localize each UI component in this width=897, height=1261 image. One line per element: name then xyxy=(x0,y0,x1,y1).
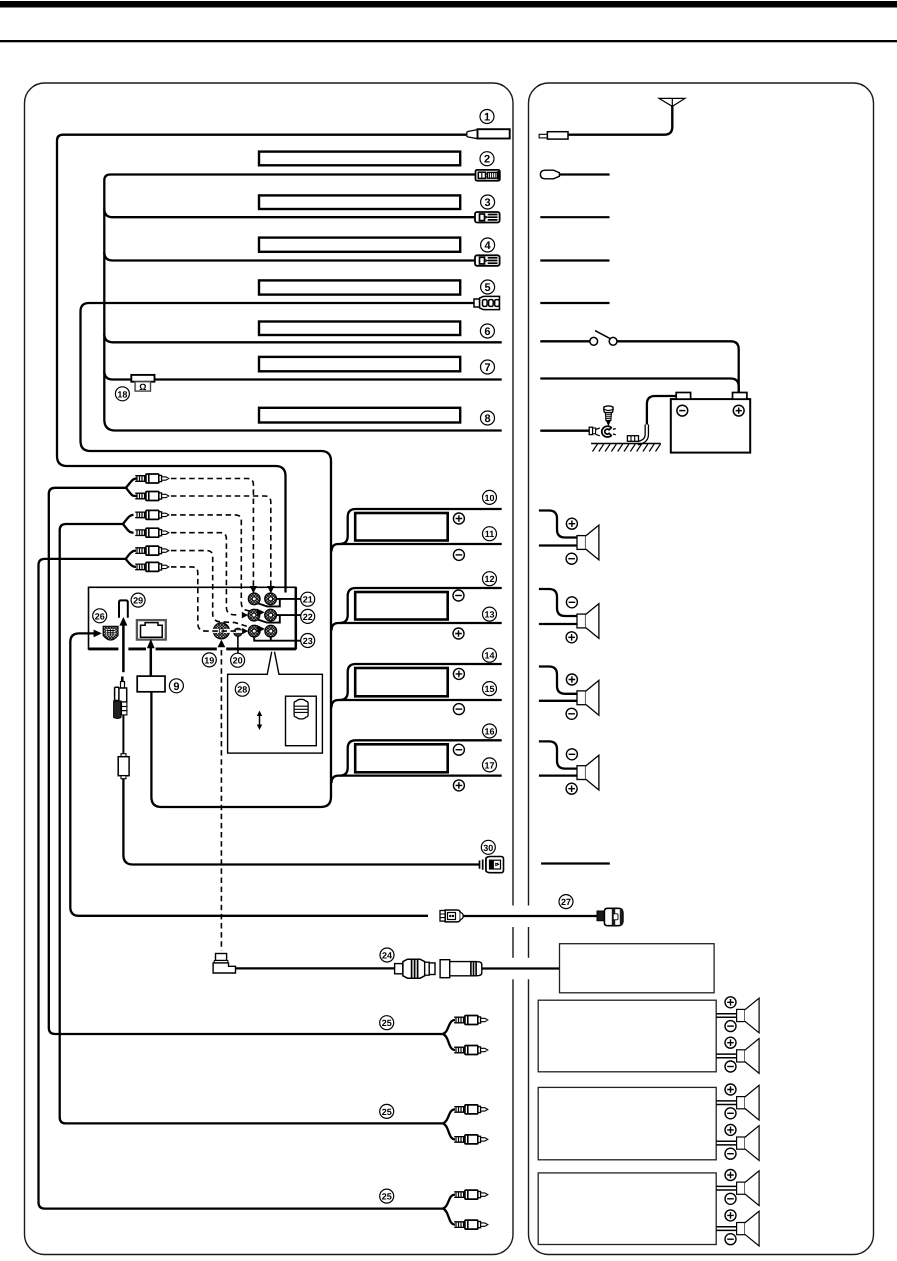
border gaps where leads 27 and 24 pass xyxy=(511,906,516,928)
RCA jack 23L xyxy=(248,625,260,637)
RCA jack 22L xyxy=(248,609,260,621)
connector pair 24 xyxy=(395,959,482,978)
RCA jack 23R xyxy=(265,625,277,637)
wire 15 rear-left - xyxy=(332,700,502,708)
wire 17 rear-right + xyxy=(332,776,502,783)
car antenna symbol xyxy=(659,98,685,106)
ignition switch xyxy=(590,331,617,346)
node label 25a xyxy=(380,1016,394,1030)
node label 17 xyxy=(483,758,497,772)
jack 19 (changer/aux DIN) xyxy=(213,623,230,639)
chassis ground xyxy=(591,444,661,452)
node label 8 xyxy=(481,411,495,425)
RCA jack bracket row 22 xyxy=(257,615,301,623)
svg-text:14: 14 xyxy=(484,651,494,661)
node label 28 xyxy=(235,682,249,696)
node label 11 xyxy=(483,527,497,541)
RCA jack 22R xyxy=(265,609,277,621)
car speaker RR xyxy=(539,741,599,794)
dashed lead from jack 19 down to 24 xyxy=(220,650,222,951)
double arrow 28 xyxy=(257,711,262,731)
amp box C xyxy=(538,1087,716,1159)
RCA plug 1a xyxy=(135,474,169,483)
svg-text:18: 18 xyxy=(117,389,127,399)
node label 21 xyxy=(301,592,315,606)
speaker label box pair 14/15 xyxy=(355,668,448,696)
amp box B xyxy=(538,1000,716,1072)
elbow plug 24 xyxy=(213,954,235,974)
RCA plug 3a xyxy=(135,546,169,555)
big socket (power connector receptacle) xyxy=(137,620,166,640)
battery wire 7 xyxy=(540,379,738,393)
amp D speaker 1 xyxy=(716,1170,759,1206)
ground wire 8 xyxy=(540,430,589,432)
dashed RCA line 1a into jack 21L xyxy=(171,479,257,594)
car speaker RL xyxy=(539,667,599,720)
battery holder inner box 28 xyxy=(286,696,317,746)
wire 10 front-left + xyxy=(340,509,502,544)
battery ground lead xyxy=(647,396,676,425)
node label 16 xyxy=(483,724,497,738)
svg-text:Ω: Ω xyxy=(139,382,146,392)
dashed RCA line 2b into jack 22L xyxy=(171,533,248,619)
svg-text:27: 27 xyxy=(561,897,571,907)
node label 13 xyxy=(483,607,497,621)
wire 16 rear-right - xyxy=(340,740,502,775)
inline connector box on lead 30 xyxy=(118,754,129,779)
lead socket 2 xyxy=(540,170,559,179)
arrow 9 up into socket xyxy=(147,639,155,648)
callout box 28 xyxy=(228,652,323,753)
car lead 5 xyxy=(540,302,609,304)
header bar xyxy=(0,1,897,8)
RCA plug 25b-1 xyxy=(454,1105,488,1114)
node label 5 xyxy=(481,280,495,294)
jack 20 (steering remote) xyxy=(233,628,242,636)
svg-text:5: 5 xyxy=(485,282,491,294)
connector 5 xyxy=(474,296,500,309)
node label 4 xyxy=(481,238,495,252)
wire 6 xyxy=(104,334,501,343)
svg-text:17: 17 xyxy=(484,760,494,770)
fuse 18 on wire 7 xyxy=(131,375,154,392)
RCA pigtail trunk A (to 25a) xyxy=(49,488,443,1034)
svg-text:21: 21 xyxy=(303,595,313,605)
wire 26/27 with arrow into DIN socket xyxy=(70,633,428,915)
wire 24 to amp xyxy=(482,967,560,969)
RCA plug 1b xyxy=(135,492,169,501)
bottom RCA Y-split A xyxy=(443,1020,455,1050)
svg-text:22: 22 xyxy=(303,612,313,622)
node label 22 xyxy=(301,609,315,623)
connector 2 xyxy=(476,170,501,181)
speaker label box pair 12/13 xyxy=(355,592,448,620)
node label 12 xyxy=(483,572,497,586)
battery plus sign xyxy=(733,405,744,416)
svg-text:25: 25 xyxy=(382,1192,392,1202)
svg-text:2: 2 xyxy=(484,154,490,166)
svg-text:23: 23 xyxy=(303,636,313,646)
svg-text:16: 16 xyxy=(484,727,494,737)
svg-text:7: 7 xyxy=(484,362,490,374)
svg-text:25: 25 xyxy=(382,1018,392,1028)
bottom RCA Y-split B xyxy=(443,1109,455,1139)
svg-text:28: 28 xyxy=(237,685,247,695)
wire 3 xyxy=(104,209,474,218)
connector 30 xyxy=(480,857,504,873)
svg-text:1: 1 xyxy=(484,112,490,124)
node label 14 xyxy=(483,648,497,662)
svg-text:24: 24 xyxy=(382,951,392,961)
wire 14 rear-left + xyxy=(340,664,502,700)
battery cell icon xyxy=(294,699,308,719)
rotary commander lead xyxy=(541,862,610,864)
socket 29 slot xyxy=(119,600,128,617)
svg-text:25: 25 xyxy=(382,1107,392,1117)
dashed RCA line 1b into jack 21R xyxy=(171,496,274,594)
svg-text:4: 4 xyxy=(485,240,492,252)
RCA plug 25b-2 xyxy=(454,1135,488,1144)
svg-text:12: 12 xyxy=(484,574,494,584)
wire 24 xyxy=(236,967,395,969)
svg-text:6: 6 xyxy=(484,326,490,338)
arrow into jack 19 xyxy=(218,640,226,648)
label box 7 xyxy=(259,357,460,371)
node label 7 xyxy=(481,360,495,374)
car lead 4 xyxy=(540,259,609,261)
wire 4 xyxy=(104,252,474,261)
node label 3 xyxy=(481,195,495,209)
svg-text:19: 19 xyxy=(204,655,214,665)
amp B speaker 2 xyxy=(716,1037,759,1073)
car speaker FL xyxy=(539,511,599,565)
label box 4 xyxy=(259,238,460,252)
svg-text:15: 15 xyxy=(484,684,494,694)
svg-text:13: 13 xyxy=(484,610,494,620)
RCA jack bracket row 21 xyxy=(257,599,301,607)
plug 27 xyxy=(597,908,623,925)
node label 24 xyxy=(380,948,394,962)
node label 18 xyxy=(115,387,129,401)
svg-text:8: 8 xyxy=(484,413,490,425)
wire 30 xyxy=(123,779,479,865)
svg-text:11: 11 xyxy=(485,529,495,539)
battery xyxy=(671,393,750,453)
bottom RCA Y-split C xyxy=(443,1195,455,1225)
RCA plug 25a-1 xyxy=(454,1016,488,1025)
wire 11 front-left - xyxy=(332,544,502,552)
node label 19 xyxy=(202,653,216,667)
wire 27 inline connector xyxy=(440,910,463,922)
antenna cable xyxy=(568,105,672,135)
node label 27 xyxy=(559,895,573,909)
label box 2 xyxy=(259,152,460,166)
wire 1 antenna lead xyxy=(57,135,467,593)
amp box D xyxy=(538,1173,716,1245)
speaker label box pair 10/11 xyxy=(355,513,448,541)
node label 29 xyxy=(131,593,145,607)
svg-text:20: 20 xyxy=(233,656,243,666)
node label 30 xyxy=(481,840,495,854)
RCA plug 25c-1 xyxy=(454,1190,488,1199)
RCA jack bracket row 23 xyxy=(254,637,301,641)
RCA pigtail trunk C (to 25c) xyxy=(39,559,443,1209)
cable clamp xyxy=(627,436,638,442)
wire 13 front-right + xyxy=(332,623,502,631)
wire 12 front-right - xyxy=(340,588,502,623)
svg-text:30: 30 xyxy=(483,843,493,853)
RCA plug 3b xyxy=(135,562,169,571)
RCA plug 2b xyxy=(135,528,169,537)
RCA plug 25a-2 xyxy=(454,1046,488,1055)
RCA plug pair 2 pigtails xyxy=(123,515,134,524)
amp box for 24 xyxy=(560,944,715,993)
ring terminal xyxy=(589,426,616,437)
ignition switch wire xyxy=(540,340,589,342)
amp C speaker 1 xyxy=(716,1084,759,1120)
speaker label box pair 16/17 xyxy=(355,744,448,772)
remote lead plug chain (29) xyxy=(114,677,127,719)
car lead 2 xyxy=(559,173,609,175)
svg-text:10: 10 xyxy=(484,493,494,503)
polarity signs left panel xyxy=(453,513,464,524)
RCA jack 21R xyxy=(265,593,277,605)
node label 10 xyxy=(483,490,497,504)
antenna plug 1 xyxy=(467,130,478,139)
svg-text:3: 3 xyxy=(485,197,491,209)
label box 5 xyxy=(259,280,460,294)
dashed RCA line 2a into jack 22R xyxy=(171,515,265,616)
car speaker FR xyxy=(539,589,599,643)
node label 6 xyxy=(480,324,494,338)
head unit rear panel xyxy=(89,587,296,651)
svg-text:26: 26 xyxy=(95,611,105,621)
RCA plug pair 1 pigtails xyxy=(126,479,137,488)
ground screw xyxy=(604,406,613,426)
label box 6 xyxy=(259,322,460,336)
node label 2 xyxy=(480,152,494,166)
node label 20 xyxy=(231,653,245,667)
battery minus sign xyxy=(677,405,688,416)
RCA pigtail trunk B (to 25b) xyxy=(60,524,443,1123)
node label 1 xyxy=(480,110,494,124)
node label 23 xyxy=(301,634,315,648)
amp B speaker 1 xyxy=(716,997,759,1033)
right panel frame xyxy=(529,83,874,1255)
node label 25c xyxy=(380,1189,394,1203)
header rule xyxy=(0,40,897,42)
amp C speaker 2 xyxy=(716,1124,759,1160)
wire 27 to right panel xyxy=(463,915,597,917)
DIN socket 26 xyxy=(103,626,118,640)
dashed RCA line 3b into jack 23L xyxy=(171,567,248,634)
node label 26 xyxy=(93,609,107,623)
car lead 3 xyxy=(540,216,609,218)
wire from jack 20 to label xyxy=(237,637,239,654)
RCA jack 21L xyxy=(248,593,260,605)
connector 9 box xyxy=(137,676,165,692)
RCA plug pair 3 pigtails xyxy=(126,551,136,559)
wire 7 xyxy=(104,371,501,380)
node label 15 xyxy=(483,682,497,696)
harness trunk wire 2 xyxy=(104,175,501,431)
amp D speaker 2 xyxy=(716,1210,759,1246)
antenna receptacle xyxy=(539,132,568,139)
connector 4 xyxy=(475,255,500,265)
dashed RCA line 3a into jack 23R xyxy=(171,551,265,633)
label box 8 xyxy=(259,408,460,423)
RCA plug 25c-2 xyxy=(454,1220,488,1229)
svg-text:9: 9 xyxy=(173,681,179,693)
wire below plug chain xyxy=(122,715,124,757)
node label 9 xyxy=(169,679,183,693)
svg-text:29: 29 xyxy=(133,596,143,606)
arrow 29 up xyxy=(119,617,127,626)
label box 3 xyxy=(259,195,460,209)
connector 3 xyxy=(475,212,500,223)
RCA plug 2a xyxy=(135,510,169,519)
wire 5 + trunk to connector 9 xyxy=(81,303,475,807)
node label 25b xyxy=(380,1104,394,1118)
left panel frame xyxy=(25,83,514,1255)
